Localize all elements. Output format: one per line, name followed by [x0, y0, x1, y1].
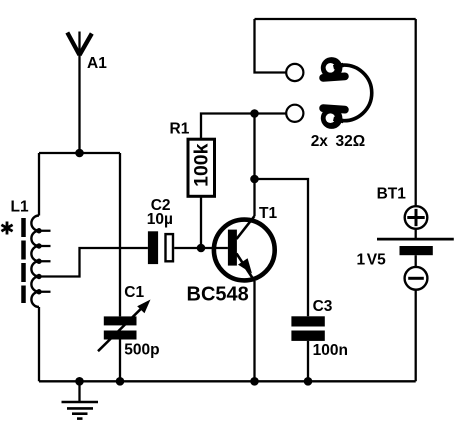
- wire: to headphone terminal 2: [255, 112, 287, 114]
- svg-text:1: 1: [357, 251, 366, 268]
- wire: emitter vertical: [253, 281, 255, 381]
- node: antenna junction: [75, 149, 84, 158]
- wire: top-left horizontal node: [39, 152, 120, 154]
- svg-text:32Ω: 32Ω: [336, 133, 366, 150]
- headphone terminal (ring): [286, 105, 303, 122]
- svg-text:T1: T1: [259, 205, 277, 222]
- wire: branch to C3: [255, 179, 309, 316]
- wire: battery top lead: [415, 19, 417, 206]
- capacitor C3: [291, 316, 324, 341]
- svg-text:100n: 100n: [313, 342, 348, 359]
- svg-text:100k: 100k: [191, 143, 213, 187]
- resistor R1: [188, 139, 215, 196]
- wire: R1 top lead to collector node: [201, 114, 255, 140]
- svg-text:L1: L1: [11, 199, 29, 216]
- svg-text:2x: 2x: [311, 133, 329, 150]
- node: C3 branch junction: [250, 175, 259, 184]
- inductor L1: [31, 216, 50, 308]
- svg-text:500p: 500p: [124, 342, 159, 359]
- svg-text:A1: A1: [87, 55, 107, 72]
- svg-text:10µ: 10µ: [147, 211, 173, 228]
- transistor T1: [214, 216, 275, 281]
- node: C3 bottom junction: [304, 377, 313, 386]
- wire: battery bottom lead: [415, 290, 417, 382]
- headphones: [319, 57, 372, 129]
- node: collector/headphone junction: [250, 109, 259, 118]
- wire: bottom rail: [39, 380, 416, 382]
- asterisk marker: [1, 222, 12, 235]
- wire: coil tap to C2: [39, 248, 148, 277]
- wire: C1 top lead: [119, 153, 121, 316]
- node: base junction: [197, 244, 206, 253]
- node: C1 bottom junction: [116, 377, 125, 386]
- svg-text:BT1: BT1: [377, 186, 407, 203]
- ground: [62, 381, 99, 418]
- headphone terminal (tip): [286, 64, 303, 81]
- svg-text:C3: C3: [313, 298, 333, 315]
- node: ground junction: [75, 377, 84, 386]
- wire: coil bottom lead: [38, 307, 40, 381]
- wire: coil top lead: [38, 153, 40, 216]
- wire: drop to headphone terminal 1: [255, 19, 287, 73]
- wire: C1 bottom lead: [119, 340, 121, 382]
- L1 adjustable core (dashed): [21, 218, 26, 303]
- antenna A1: [67, 32, 92, 154]
- capacitor C2: [148, 231, 173, 264]
- svg-text:R1: R1: [170, 121, 190, 138]
- battery BT1: [377, 206, 454, 289]
- svg-text:C1: C1: [124, 284, 144, 301]
- capacitor C1 (variable): [98, 300, 151, 352]
- wire: top rail: [255, 18, 416, 20]
- svg-text:BC548: BC548: [187, 284, 249, 306]
- wire: R1 bottom lead: [200, 196, 202, 248]
- svg-text:V5: V5: [367, 251, 386, 268]
- node: emitter bottom junction: [250, 377, 259, 386]
- wire: collector vertical: [253, 114, 255, 217]
- wire: C3 bottom lead: [307, 341, 309, 381]
- wire: C2 to base: [174, 247, 228, 249]
